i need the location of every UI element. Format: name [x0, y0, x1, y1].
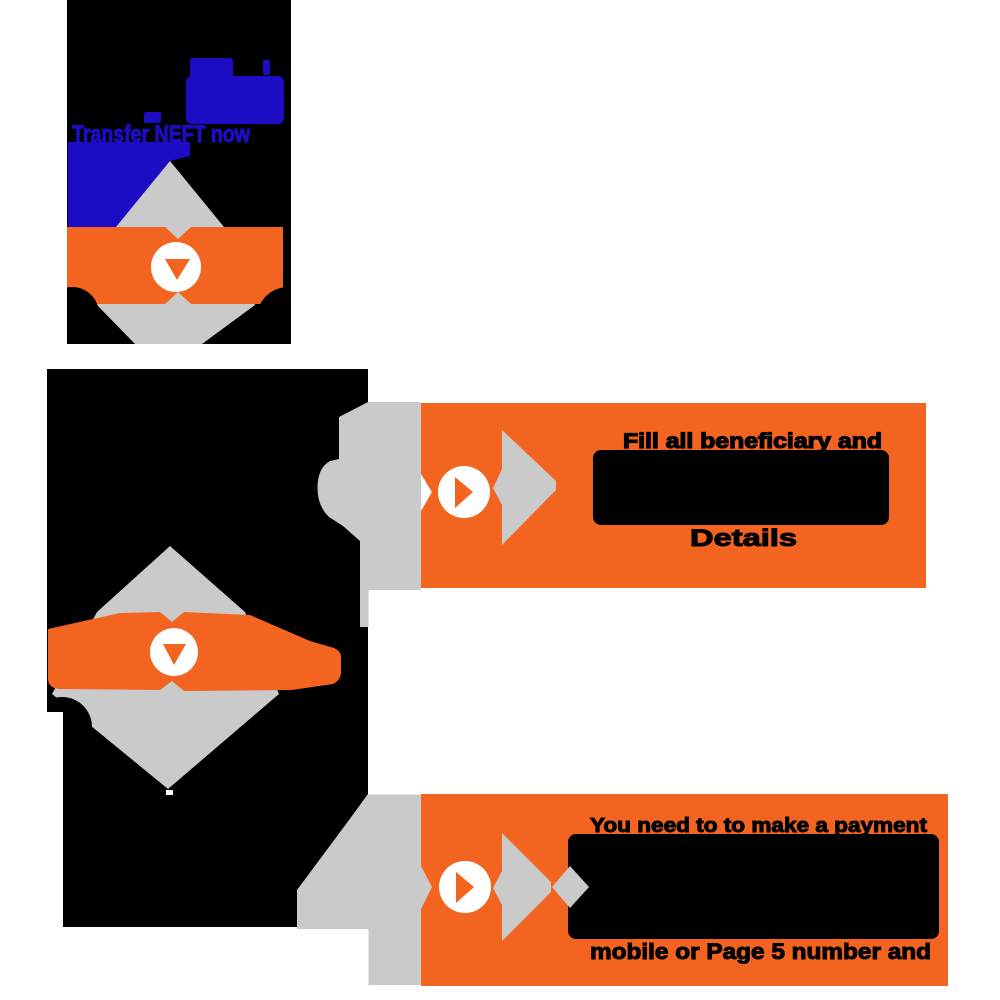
unit B orange down triangle [163, 644, 186, 665]
unit B orange ribbon [48, 612, 341, 691]
unit D gray tail [297, 795, 421, 986]
unit B ribbon bottom-left scoop [32, 697, 92, 757]
unit A orange down triangle [165, 259, 190, 280]
unit A blue text line 1 [144, 58, 270, 123]
unit D orange play triangle [456, 872, 474, 903]
unit A gray diamond [97, 161, 255, 344]
unit B white circle [150, 628, 198, 676]
unit D white circle [439, 861, 491, 913]
unit B black image block with caption blob [47, 369, 368, 927]
unit B ribbon bottom-right scoop [253, 702, 315, 764]
unit C gray tail [318, 402, 422, 627]
svg-text:mobile or Page 5 number and: mobile or Page 5 number and [590, 939, 931, 964]
unit A black image block [67, 0, 291, 344]
unit C white circle [438, 466, 490, 518]
svg-text:You need to to make a payment: You need to to make a payment [590, 815, 927, 837]
unit A blue blob [186, 76, 284, 124]
unit B gray diamond [52, 546, 279, 789]
unit D gray arrowhead [493, 833, 551, 941]
unit C orange box [421, 403, 926, 588]
unit C gray arrowhead [493, 430, 556, 545]
unit D orange box [421, 794, 948, 986]
unit D notch [421, 866, 432, 909]
unit B white notch under diamond tip [166, 790, 173, 795]
unit A ribbon bottom-left scoop [45, 287, 99, 341]
unit C notch [421, 474, 432, 511]
unit A ribbon top notch [165, 227, 191, 239]
unit A ribbon bottom notch [165, 292, 191, 304]
unit A blue mass [68, 142, 190, 228]
unit A ribbon bottom-right scoop [257, 287, 319, 349]
unit C black text blob [593, 450, 889, 525]
unit D small gray diamond [552, 866, 589, 908]
unit A white circle [151, 242, 201, 292]
svg-text:Details: Details [690, 525, 797, 552]
unit D black text blob [568, 834, 939, 939]
unit C orange play triangle [455, 477, 473, 508]
unit A orange ribbon [67, 227, 283, 304]
svg-text:Fill all beneficiary and: Fill all beneficiary and [623, 430, 882, 453]
